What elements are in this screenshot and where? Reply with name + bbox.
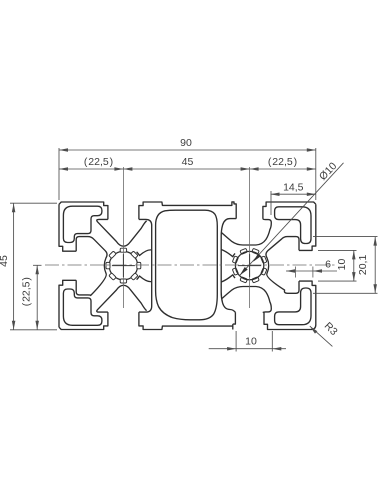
svg-text:6: 6 <box>325 259 331 271</box>
svg-text:45: 45 <box>182 156 194 168</box>
svg-text:10: 10 <box>336 259 348 271</box>
svg-text:14,5: 14,5 <box>283 181 304 193</box>
svg-text:( 22,5 ): ( 22,5 ) <box>21 277 33 306</box>
svg-text:90: 90 <box>180 137 192 149</box>
svg-text:( 22,5 ): ( 22,5 ) <box>268 156 297 168</box>
svg-text:20,1: 20,1 <box>357 255 369 276</box>
svg-text:45: 45 <box>0 255 10 267</box>
svg-text:( 22,5 ): ( 22,5 ) <box>84 156 113 168</box>
svg-text:10: 10 <box>245 336 257 348</box>
